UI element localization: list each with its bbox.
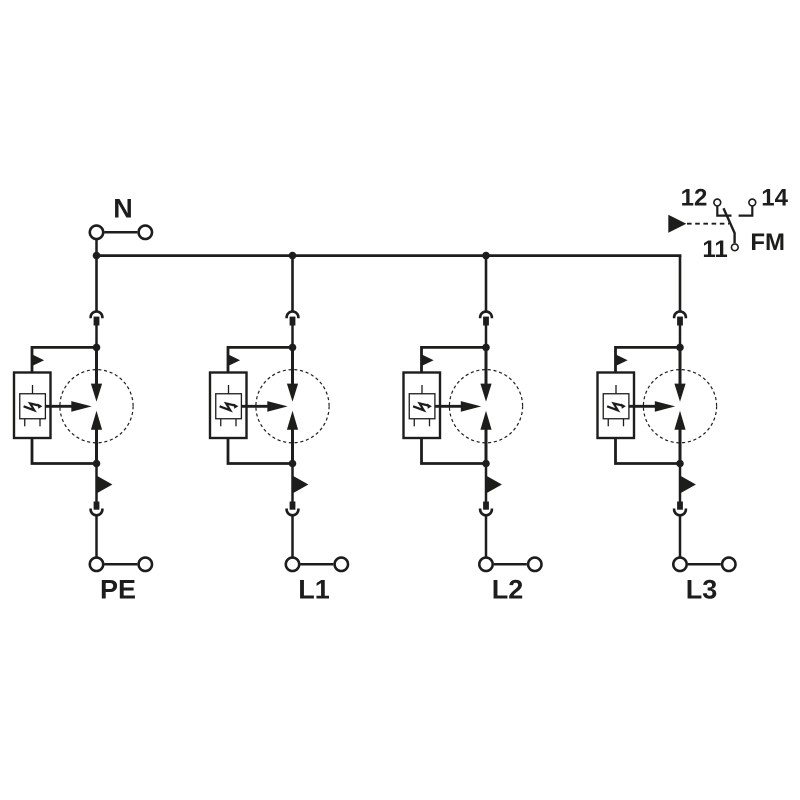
wire and arrow: varistor to spark gap (L2) — [435, 401, 482, 412]
spark gap bottom electrode triangle (L2) — [480, 411, 491, 430]
lower disconnect contact (L2): pin and cup — [480, 502, 492, 516]
varistor cartridge box (L3) — [598, 373, 635, 439]
wire: N terminal down to bus — [95, 240, 98, 256]
svg-text:N: N — [113, 194, 133, 224]
wire and arrow: varistor to spark gap (PE) — [45, 401, 91, 412]
wire: bus to upper disconnect (L2 branch) — [485, 256, 488, 312]
wire: upper disconnect to node L2-top — [485, 325, 488, 347]
wire: node L2-bottom to lower disconnect — [485, 464, 488, 502]
breakaway indicator arrow upper (PE) — [33, 355, 45, 366]
wire: lower disconnect to terminal L1 — [291, 516, 294, 557]
wire: node L1-bottom to lower disconnect — [291, 464, 294, 502]
spark gap top electrode triangle (L2) — [480, 384, 491, 402]
wire: bus to upper disconnect (PE branch) — [95, 256, 98, 312]
lower disconnect contact (PE): pin and cup — [91, 502, 103, 516]
svg-text:FM: FM — [750, 229, 785, 256]
wire: upper disconnect to node L3-top — [679, 325, 682, 347]
upper disconnect contact (L2): arc and pin — [480, 312, 492, 326]
wire: bottom electrode to node PE-bottom — [95, 429, 98, 464]
spark gap bottom electrode triangle (L1) — [287, 411, 298, 430]
lower disconnect contact (L3): pin and cup — [674, 502, 686, 516]
wire: terminal bridge PE — [105, 563, 138, 566]
FM contact 12 terminal circle — [714, 199, 721, 206]
wire: node L1-top to top electrode — [291, 347, 294, 385]
varistor element symbol with flash (L2) — [409, 385, 435, 426]
varistor element symbol with flash (PE) — [20, 385, 46, 426]
wire and arrow: varistor to spark gap (L3) — [629, 401, 676, 412]
wire: node L2-top to varistor box — [422, 347, 487, 372]
terminal N circle 2 — [139, 226, 152, 239]
wire: node L3-top to top electrode — [679, 347, 682, 385]
svg-text:12: 12 — [681, 184, 708, 211]
wire: lower disconnect to terminal L2 — [485, 516, 488, 557]
upper disconnect contact (PE): arc and pin — [91, 312, 103, 326]
wire: bus to upper disconnect (L3 branch) — [679, 256, 682, 312]
node PE-top junction dot — [93, 344, 101, 352]
spark gap top electrode triangle (L1) — [287, 384, 298, 402]
bus wire from N branch to L3 branch — [95, 254, 681, 257]
wire: varistor box to node PE-bottom — [32, 438, 97, 464]
wire: bottom electrode to node L3-bottom — [679, 429, 682, 464]
wire: node PE-bottom to lower disconnect — [95, 464, 98, 502]
node L3-bottom junction dot — [676, 460, 684, 468]
varistor cartridge box (L1) — [210, 373, 247, 439]
wire: upper disconnect to node L1-top — [291, 325, 294, 347]
wire: terminal bridge L1 — [301, 563, 334, 566]
wire: bottom electrode to node L2-bottom — [485, 429, 488, 464]
spark gap bottom electrode triangle (L3) — [674, 411, 685, 430]
FM contact 12 seat wire — [717, 206, 731, 215]
spark gap top electrode triangle (L3) — [674, 384, 685, 402]
wire: lower disconnect to terminal PE — [95, 516, 98, 557]
node L1-bottom junction dot — [289, 460, 297, 468]
varistor cartridge box (L2) — [404, 373, 441, 439]
spark gap dashed circle (L2) — [449, 370, 522, 443]
spark gap top electrode triangle (PE) — [91, 384, 102, 402]
breakaway indicator arrow lower (L3) — [681, 476, 696, 493]
svg-text:14: 14 — [761, 184, 788, 211]
junction dot bus at L2 branch — [482, 252, 490, 260]
terminal PE circle 2 — [139, 558, 152, 571]
FM changeover arm wire — [724, 208, 735, 243]
svg-text:L3: L3 — [686, 574, 718, 604]
wire: varistor box to node L3-bottom — [616, 438, 681, 464]
terminal PE circle 1 — [90, 558, 103, 571]
wire: bus to upper disconnect (L1 branch) — [291, 256, 294, 312]
varistor element symbol with flash (L3) — [603, 385, 629, 426]
junction dot bus at N/PE branch — [93, 252, 101, 260]
terminal N circle 1 — [90, 226, 103, 239]
terminal L1 circle 2 — [335, 558, 348, 571]
wire: upper disconnect to node PE-top — [95, 325, 98, 347]
varistor element symbol with flash (L1) — [216, 385, 242, 426]
wire: node PE-top to top electrode — [95, 347, 98, 385]
spark gap bottom electrode triangle (PE) — [91, 411, 102, 430]
svg-text:L2: L2 — [492, 574, 524, 604]
wire: terminal bridge L3 — [688, 563, 721, 566]
wire: varistor box to node L1-bottom — [228, 438, 293, 464]
node L1-top junction dot — [289, 344, 297, 352]
FM contact 14 terminal circle — [749, 199, 756, 206]
node L2-bottom junction dot — [482, 460, 490, 468]
wire: varistor box to node L2-bottom — [422, 438, 487, 464]
lower disconnect contact (L1): pin and cup — [287, 502, 299, 516]
FM contact 11 terminal circle — [731, 244, 738, 251]
terminal L3 circle 1 — [673, 558, 686, 571]
breakaway indicator arrow lower (L1) — [294, 476, 309, 493]
breakaway indicator arrow lower (L2) — [487, 476, 502, 493]
junction dot bus at L1 branch — [289, 252, 297, 260]
breakaway indicator arrow upper (L2) — [422, 355, 434, 366]
wire: node L1-top to varistor box — [228, 347, 293, 372]
wire: terminal bridge N — [105, 231, 138, 234]
spark gap dashed circle (L3) — [643, 370, 716, 443]
FM mechanical link dashed wire — [687, 223, 729, 225]
upper disconnect contact (L1): arc and pin — [287, 312, 299, 326]
svg-text:PE: PE — [100, 574, 136, 604]
breakaway indicator arrow upper (L3) — [616, 355, 628, 366]
wire: terminal bridge L2 — [494, 563, 527, 566]
breakaway indicator arrow lower (PE) — [98, 476, 113, 493]
terminal L2 circle 2 — [528, 558, 541, 571]
wire: node L2-top to top electrode — [485, 347, 488, 385]
FM status indicator arrow — [668, 215, 686, 233]
terminal L3 circle 2 — [722, 558, 735, 571]
upper disconnect contact (L3): arc and pin — [674, 312, 686, 326]
spark gap dashed circle (PE) — [60, 370, 133, 443]
wire: node L3-bottom to lower disconnect — [679, 464, 682, 502]
spark gap dashed circle (L1) — [256, 370, 329, 443]
wire: bottom electrode to node L1-bottom — [291, 429, 294, 464]
varistor cartridge box (PE) — [14, 373, 51, 439]
FM contact 14 seat wire — [739, 206, 753, 215]
node PE-bottom junction dot — [93, 460, 101, 468]
breakaway indicator arrow upper (L1) — [229, 355, 241, 366]
node L2-top junction dot — [482, 344, 490, 352]
node L3-top junction dot — [676, 344, 684, 352]
wire: node PE-top to varistor box — [32, 347, 97, 372]
terminal L1 circle 1 — [286, 558, 299, 571]
wire and arrow: varistor to spark gap (L1) — [241, 401, 288, 412]
svg-text:L1: L1 — [298, 574, 330, 604]
wire: node L3-top to varistor box — [616, 347, 681, 372]
svg-text:11: 11 — [702, 236, 727, 263]
wire: lower disconnect to terminal L3 — [679, 516, 682, 557]
terminal L2 circle 1 — [479, 558, 492, 571]
